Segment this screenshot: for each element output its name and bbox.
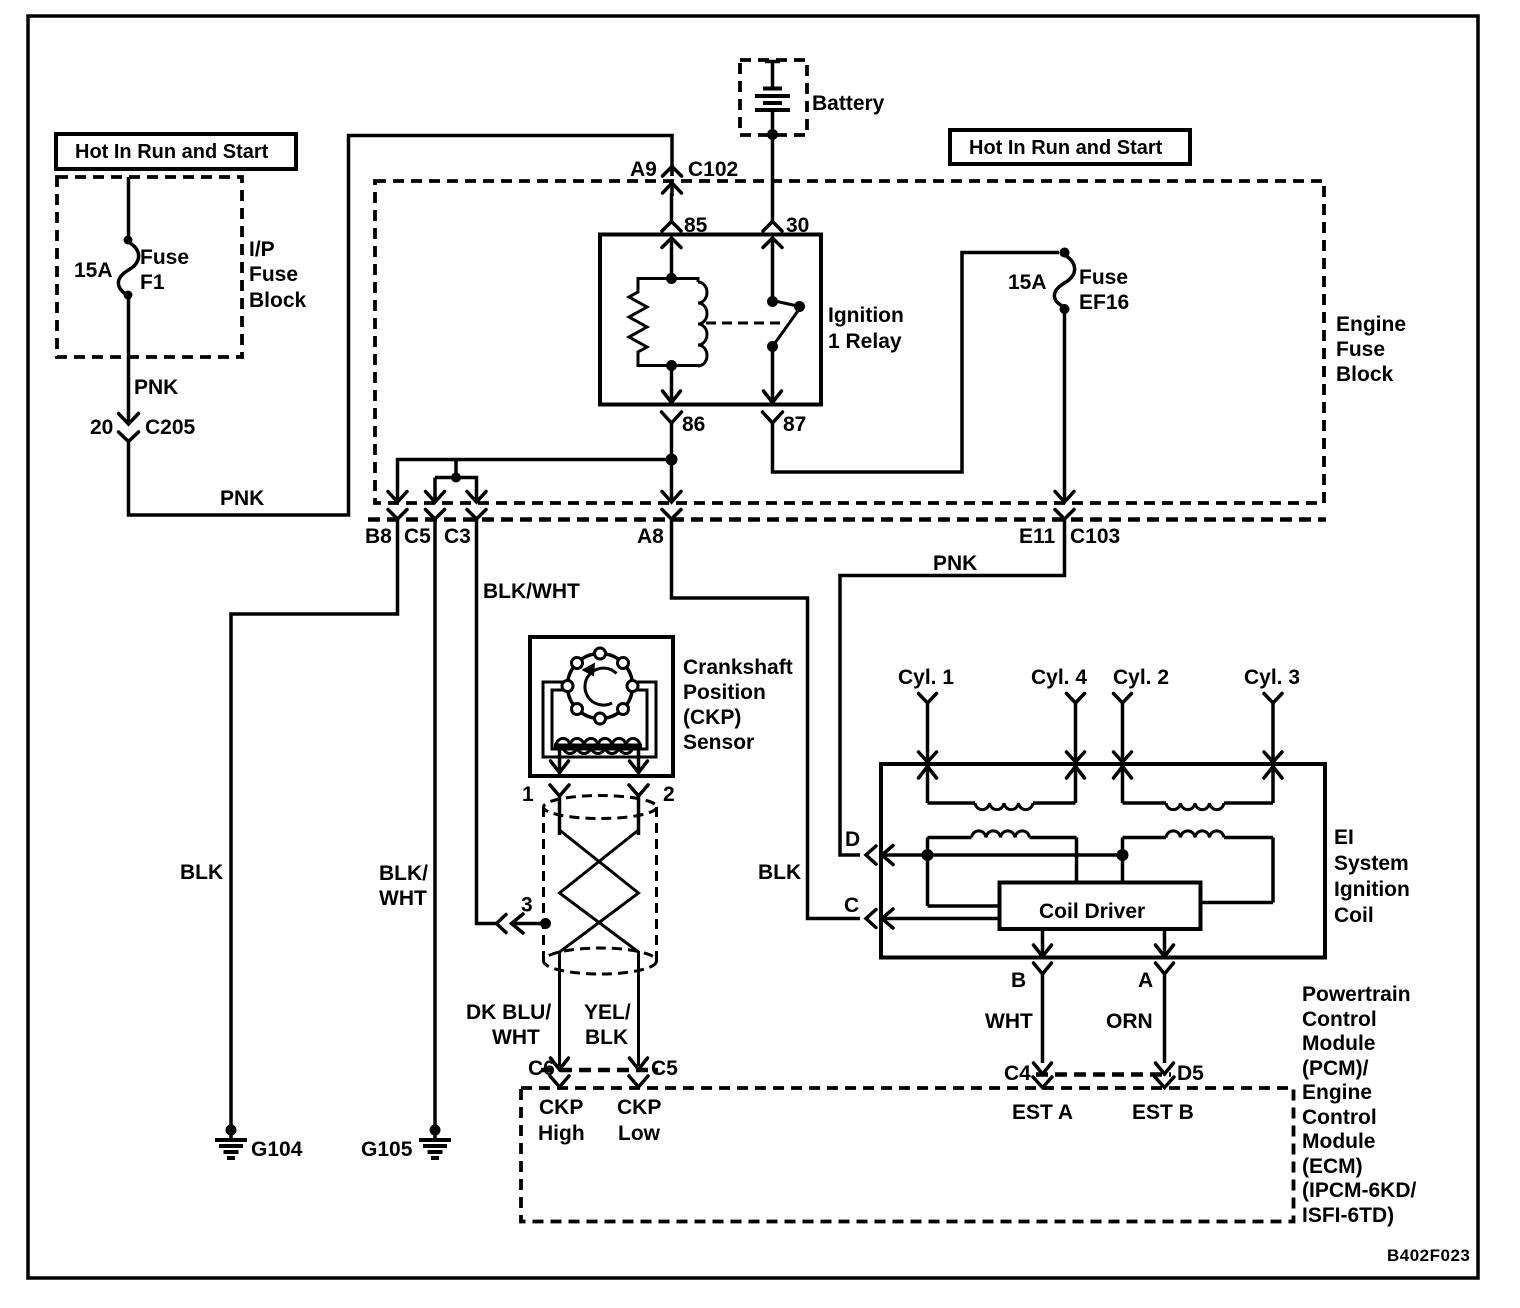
node: coil top xyxy=(666,273,677,284)
svg-text:15A: 15A xyxy=(1008,271,1047,294)
svg-text:Crankshaft: Crankshaft xyxy=(683,656,793,679)
svg-text:G104: G104 xyxy=(251,1138,303,1161)
node: C5/C3 branch xyxy=(451,473,461,483)
connector C103 pin A8 xyxy=(637,492,681,549)
wire: fuse F1 to C205 (PNK) xyxy=(127,296,131,423)
svg-text:EST A: EST A xyxy=(1012,1101,1073,1124)
svg-text:Fuse: Fuse xyxy=(1079,266,1128,289)
svg-text:Cyl. 3: Cyl. 3 xyxy=(1244,666,1300,689)
relay pin 87 xyxy=(763,391,807,436)
node: battery junction xyxy=(767,129,778,140)
svg-text:PNK: PNK xyxy=(220,487,264,510)
svg-text:C: C xyxy=(844,894,859,917)
wire BLK: A8 to EI pin C xyxy=(672,519,861,919)
svg-text:PNK: PNK xyxy=(933,552,977,575)
wire PNK: C205 down, right, up to A9 xyxy=(129,136,673,516)
svg-text:G105: G105 xyxy=(361,1138,413,1161)
svg-text:(PCM)/: (PCM)/ xyxy=(1302,1057,1369,1080)
node: shield drain at twisted pair xyxy=(540,918,551,929)
CKP pin 1 xyxy=(522,783,569,835)
svg-text:A9: A9 xyxy=(630,158,657,181)
svg-text:System: System xyxy=(1334,852,1409,875)
svg-text:C205: C205 xyxy=(145,416,196,439)
battery B+ xyxy=(755,60,885,134)
relay actuator dashed link xyxy=(706,322,783,325)
svg-text:ISFI-6TD): ISFI-6TD) xyxy=(1302,1204,1394,1227)
PCM input labels xyxy=(538,1096,1194,1145)
wire: coil bottom to pin 86 xyxy=(670,366,674,403)
svg-text:Cyl. 4: Cyl. 4 xyxy=(1031,666,1087,689)
svg-text:Engine: Engine xyxy=(1302,1081,1372,1104)
EI pin D entry xyxy=(845,828,1123,865)
wire: pin 86 down to junction xyxy=(670,423,674,460)
svg-text:15A: 15A xyxy=(74,259,113,282)
wire: junction down to A8 xyxy=(670,460,674,502)
connector C205 pin 20 xyxy=(90,414,196,442)
primary winding T2 xyxy=(1123,831,1274,903)
relay coil-side wire xyxy=(670,238,674,278)
label box: Hot In Run and Start (right) xyxy=(950,130,1190,164)
svg-text:A: A xyxy=(1138,969,1153,992)
wire: A9 to relay pin 85 xyxy=(670,193,674,222)
svg-text:C6: C6 xyxy=(528,1057,555,1080)
svg-text:Module: Module xyxy=(1302,1032,1376,1055)
svg-text:Ignition: Ignition xyxy=(828,304,904,327)
svg-text:Block: Block xyxy=(249,289,307,312)
twisted pair wires xyxy=(560,828,639,1066)
ground G105 xyxy=(361,1125,451,1162)
svg-text:EST B: EST B xyxy=(1132,1101,1194,1124)
svg-text:Hot In Run and Start: Hot In Run and Start xyxy=(75,141,269,163)
wire: switch to pin 87 xyxy=(771,347,775,403)
svg-text:WHT: WHT xyxy=(985,1010,1033,1033)
relay switch contacts xyxy=(767,238,805,352)
svg-text:CKP: CKP xyxy=(539,1096,583,1119)
secondary winding T1 (Cyl 1/4) xyxy=(928,803,1076,810)
svg-text:C5: C5 xyxy=(404,525,431,548)
in-line connector at CKP pin 3 xyxy=(497,894,546,934)
wire PNK: E11 to EI pin D xyxy=(840,519,1065,855)
twisted pair shield (dashed capsule) xyxy=(544,796,657,975)
svg-text:WHT: WHT xyxy=(379,887,427,910)
svg-text:87: 87 xyxy=(783,413,806,436)
connector pin D5 xyxy=(1155,1062,1204,1088)
primary winding T1 xyxy=(928,831,1077,906)
node: coil bottom xyxy=(666,360,677,371)
connector pin C4 xyxy=(1004,1062,1052,1088)
I/P Fuse Block (dashed enclosure) xyxy=(57,177,242,357)
svg-text:Battery: Battery xyxy=(812,92,885,115)
svg-text:(IPCM-6KD/: (IPCM-6KD/ xyxy=(1302,1179,1416,1202)
wire: C5 drop xyxy=(433,478,437,502)
svg-text:ORN: ORN xyxy=(1106,1010,1153,1033)
svg-text:Fuse: Fuse xyxy=(140,246,189,269)
svg-text:Hot In Run and Start: Hot In Run and Start xyxy=(969,137,1163,159)
svg-text:Module: Module xyxy=(1302,1130,1376,1153)
svg-text:Control: Control xyxy=(1302,1106,1377,1129)
connector C103 pin C3 xyxy=(444,492,486,549)
CKP pickup body rectangles xyxy=(543,682,656,757)
wire ORN: A to D5 xyxy=(1163,974,1167,1063)
svg-text:BLK/WHT: BLK/WHT xyxy=(483,580,580,603)
svg-text:YEL/: YEL/ xyxy=(584,1001,631,1024)
fuse EF16 xyxy=(1008,255,1129,314)
wire WHT: B to C4 xyxy=(1041,974,1045,1063)
svg-text:A8: A8 xyxy=(637,525,664,548)
connector C103 pin B8 xyxy=(365,492,407,549)
svg-text:Ignition: Ignition xyxy=(1334,878,1410,901)
svg-text:B402F023: B402F023 xyxy=(1387,1246,1470,1265)
node: A8 branch junction xyxy=(666,454,678,466)
svg-text:BLK: BLK xyxy=(585,1026,628,1049)
svg-text:Control: Control xyxy=(1302,1008,1377,1031)
svg-text:86: 86 xyxy=(682,413,705,436)
spark output Cyl. 2 xyxy=(1113,666,1169,803)
spark output Cyl. 1 xyxy=(898,666,954,803)
svg-text:BLK/: BLK/ xyxy=(379,862,428,885)
spark output Cyl. 3 xyxy=(1244,666,1300,803)
svg-text:High: High xyxy=(538,1122,585,1145)
connector C102 pin A9 xyxy=(630,158,738,196)
relay pin 85 xyxy=(662,214,708,248)
connector C103 pin E11 xyxy=(1019,492,1074,549)
node: D to primary T2 xyxy=(1117,849,1129,861)
wire: hot feed into fuse F1 xyxy=(127,177,131,241)
Engine Fuse Block (dashed enclosure) xyxy=(375,181,1324,503)
svg-text:F1: F1 xyxy=(140,271,165,294)
svg-text:3: 3 xyxy=(521,894,533,917)
svg-text:Powertrain: Powertrain xyxy=(1302,983,1411,1006)
ground G104 xyxy=(215,1125,303,1162)
svg-text:D5: D5 xyxy=(1177,1062,1204,1085)
label box: Hot In Run and Start (left) xyxy=(56,134,296,169)
svg-text:C3: C3 xyxy=(444,525,471,548)
EI output A xyxy=(1138,929,1174,992)
svg-text:B: B xyxy=(1011,969,1026,992)
CKP output arrows to pins xyxy=(551,750,648,773)
svg-text:DK BLU/: DK BLU/ xyxy=(466,1001,551,1024)
svg-text:Fuse: Fuse xyxy=(249,263,298,286)
connector pin C6 xyxy=(528,1057,569,1087)
svg-text:WHT: WHT xyxy=(492,1026,540,1049)
battery enclosure (dashed) xyxy=(740,60,807,135)
wire: battery to relay pin 30 xyxy=(771,134,775,222)
relay pin 30 xyxy=(763,214,809,248)
wire: junction left to B8 drop xyxy=(398,460,672,502)
secondary winding T2 (Cyl 2/3) xyxy=(1123,803,1274,810)
svg-text:Cyl. 2: Cyl. 2 xyxy=(1113,666,1169,689)
svg-text:1: 1 xyxy=(522,783,534,806)
svg-text:Engine: Engine xyxy=(1336,313,1406,336)
svg-text:BLK: BLK xyxy=(758,861,801,884)
svg-text:1 Relay: 1 Relay xyxy=(828,330,902,353)
svg-text:I/P: I/P xyxy=(249,238,275,261)
node: EF16 top xyxy=(1060,248,1070,258)
label: I/P Fuse Block xyxy=(249,238,307,312)
relay coil L xyxy=(672,279,708,367)
wire BLK/WHT: C3 to CKP pin 3 xyxy=(477,519,497,924)
svg-text:Sensor: Sensor xyxy=(683,731,754,754)
svg-text:B8: B8 xyxy=(365,525,392,548)
connector C103 pin C5 xyxy=(404,492,445,549)
svg-text:Fuse: Fuse xyxy=(1336,338,1385,361)
svg-text:C103: C103 xyxy=(1070,525,1120,548)
wire: stub to C5/C3 branch xyxy=(435,460,456,478)
svg-text:CKP: CKP xyxy=(617,1096,661,1119)
fuse F1 xyxy=(74,236,189,300)
wire: EF16 to E11 xyxy=(1063,309,1067,501)
svg-text:EI: EI xyxy=(1334,826,1354,849)
svg-text:(CKP): (CKP) xyxy=(683,706,741,729)
svg-text:Cyl. 1: Cyl. 1 xyxy=(898,666,954,689)
svg-text:BLK: BLK xyxy=(180,861,223,884)
spark output Cyl. 4 xyxy=(1031,666,1087,803)
CKP pickup coil xyxy=(554,739,642,754)
CKP pin 2 xyxy=(629,783,675,835)
label: Engine Fuse Block xyxy=(1336,313,1406,386)
relay pin 86 xyxy=(662,391,706,436)
wire BLK: B8 to G104 xyxy=(231,519,398,1129)
PCM/ECM (dashed enclosure) xyxy=(521,1088,1294,1222)
svg-text:EF16: EF16 xyxy=(1079,291,1129,314)
svg-text:Coil: Coil xyxy=(1334,904,1374,927)
EI output B xyxy=(1011,929,1052,992)
EI System Ignition Coil box xyxy=(881,764,1325,958)
label: Powertrain Control Module xyxy=(1302,983,1416,1227)
EI pin C entry xyxy=(844,894,1000,928)
connector line at C4/D5 xyxy=(1036,1072,1171,1077)
connector pin C5 (PCM) xyxy=(629,1057,678,1087)
svg-text:Position: Position xyxy=(683,681,766,704)
svg-text:Low: Low xyxy=(618,1122,661,1145)
svg-text:Block: Block xyxy=(1336,363,1394,386)
svg-text:PNK: PNK xyxy=(134,376,178,399)
sensor B1: Crankshaft Position (CKP) Sensor box xyxy=(530,637,673,776)
svg-text:E11: E11 xyxy=(1019,525,1056,548)
svg-text:C102: C102 xyxy=(688,158,738,181)
Coil Driver box U1 xyxy=(1000,883,1201,930)
svg-text:(ECM): (ECM) xyxy=(1302,1155,1363,1178)
svg-text:C4: C4 xyxy=(1004,1062,1031,1085)
connector C103 (dashed line) xyxy=(368,517,1326,522)
svg-text:Coil Driver: Coil Driver xyxy=(1039,900,1145,923)
svg-text:D: D xyxy=(845,828,860,851)
svg-text:C5: C5 xyxy=(651,1057,678,1080)
wire: pin 87 to fuse EF16 xyxy=(773,253,1060,473)
relay resistor (parallel with coil) xyxy=(629,279,672,366)
CKP reluctor wheel xyxy=(562,648,638,724)
connector line at C6/C5 xyxy=(541,1068,658,1073)
node: D to primary T1 xyxy=(922,849,934,861)
svg-text:20: 20 xyxy=(90,416,113,439)
svg-text:2: 2 xyxy=(663,783,675,806)
wire BLK/WHT: C5 to G105 xyxy=(433,519,437,1129)
relay K1: Ignition 1 Relay box xyxy=(600,235,821,405)
